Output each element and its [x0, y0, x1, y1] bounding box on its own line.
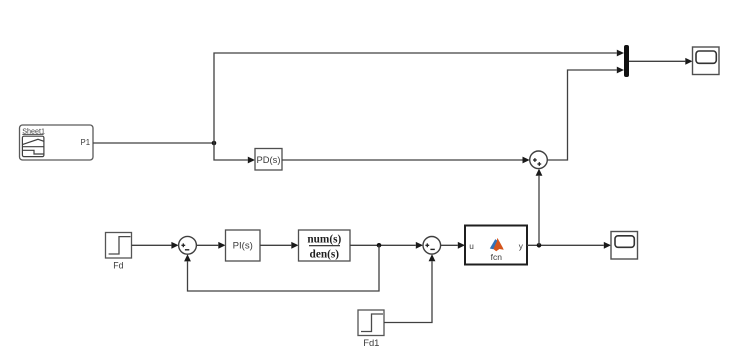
wire Fd1 to sum S2 bottom	[384, 254, 435, 322]
port label P1	[81, 138, 91, 147]
wire junction up to sum S3 bottom	[536, 169, 543, 246]
wire Fd to sum S1	[132, 242, 179, 249]
svg-text:num(s): num(s)	[307, 233, 341, 245]
sum S1	[179, 236, 197, 254]
wire P1 output to junction	[93, 142, 214, 144]
label Fd	[113, 260, 123, 270]
wire junction down to PD(s) input	[214, 143, 255, 163]
sum S3	[530, 151, 548, 169]
scope 2	[611, 232, 638, 260]
svg-text:P1: P1	[81, 138, 91, 147]
wire junction up to mux input 1	[214, 50, 624, 143]
wire feedback junction to sum S1 bottom	[184, 245, 379, 291]
transfer function PD(s)	[255, 149, 282, 171]
svg-text:PI(s): PI(s)	[233, 240, 253, 251]
wire fcn to scope 2	[527, 242, 611, 249]
wire PI(s) to num/den	[260, 242, 299, 249]
wire num/den to sum S2	[350, 242, 423, 249]
wire sum S2 to fcn	[441, 242, 465, 249]
sum S2	[423, 237, 441, 255]
wire mux to scope 1	[629, 58, 693, 65]
MATLAB function block fcn	[465, 226, 527, 265]
signal builder block Sheet1	[20, 125, 94, 160]
scope 1	[693, 47, 720, 75]
svg-text:fcn: fcn	[491, 252, 503, 262]
label Fd1	[363, 337, 379, 348]
svg-text:PD(s): PD(s)	[257, 154, 281, 165]
junction on fcn output	[537, 243, 542, 248]
MATLAB logo in fcn block	[490, 238, 504, 251]
transfer function PI(s)	[226, 230, 261, 261]
svg-text:den(s): den(s)	[310, 249, 340, 261]
step block Fd	[106, 233, 132, 259]
transfer function num(s)/den(s)	[299, 230, 351, 261]
wire sum S1 to PI(s)	[196, 242, 225, 249]
svg-text:u: u	[469, 241, 474, 251]
svg-text:Fd1: Fd1	[363, 337, 379, 348]
svg-text:Fd: Fd	[113, 260, 123, 270]
junction on num/den output	[377, 243, 382, 248]
junction on P1 wire	[212, 141, 217, 146]
wire sum S3 to mux input 2	[547, 67, 624, 160]
wire PD(s) to sum S3	[282, 157, 530, 164]
mux	[624, 45, 629, 77]
step block Fd1	[358, 310, 384, 336]
